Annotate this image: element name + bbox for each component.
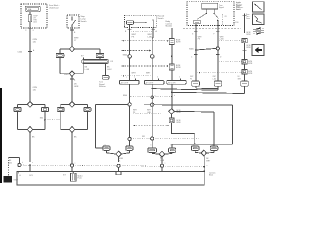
stop lamp switch dashed box bbox=[67, 15, 79, 28]
rear mid inner bulb bbox=[169, 148, 176, 152]
wire BCM pin1 down bbox=[171, 45, 173, 64]
wire column E turn B bbox=[195, 24, 197, 81]
ground rail ticks bbox=[17, 171, 19, 173]
svg-text:Rear: Rear bbox=[246, 14, 250, 16]
rear right inner bulb bbox=[210, 146, 218, 150]
turn signal switch body bbox=[202, 3, 218, 9]
long junction line right segment bbox=[144, 104, 232, 107]
svg-text:B298: B298 bbox=[176, 67, 180, 69]
wire column A below cluster bbox=[129, 84, 131, 139]
horizontal H4 diamond to rear right bbox=[175, 110, 215, 113]
dotted row y138.6 bbox=[130, 138, 199, 140]
horizontal H2 BCM column to rear feed G bbox=[171, 92, 173, 94]
connector ticks at fuse block exit bbox=[28, 27, 32, 29]
wire BCM square down bbox=[171, 123, 173, 134]
rear mid outer bulb bbox=[148, 148, 157, 152]
wire G down bbox=[244, 43, 246, 60]
long junction line y104.5 left segment bbox=[96, 103, 128, 105]
tick marks on E F bbox=[194, 54, 198, 56]
dashed row 3 to BCM bbox=[122, 65, 170, 67]
wire column B hazard output bbox=[152, 28, 154, 38]
splice diamond on BCM column bbox=[169, 109, 175, 115]
svg-text:E: E bbox=[171, 144, 172, 146]
svg-text:S31: S31 bbox=[142, 136, 145, 138]
icon harness arrows bbox=[253, 27, 265, 30]
svg-text:B298: B298 bbox=[248, 63, 252, 65]
svg-text:D: D bbox=[105, 144, 106, 146]
svg-text:Switch: Switch bbox=[158, 17, 165, 20]
svg-text:L-BU: L-BU bbox=[107, 69, 112, 71]
svg-text:B298: B298 bbox=[177, 112, 181, 114]
svg-text:PK: PK bbox=[190, 78, 192, 80]
hazard switch contact bbox=[127, 21, 134, 25]
front right branch wires bbox=[61, 103, 69, 105]
svg-text:Underhood: Underhood bbox=[49, 6, 58, 9]
wire BCM column down to diamond bbox=[171, 84, 173, 108]
svg-text:S304: S304 bbox=[123, 95, 127, 97]
svg-text:C475: C475 bbox=[29, 175, 33, 177]
svg-text:STOP: STOP bbox=[33, 15, 37, 17]
svg-text:S305: S305 bbox=[189, 49, 193, 51]
splice dot dotted row y96.6 bbox=[129, 96, 131, 98]
connector box column E bbox=[192, 81, 200, 86]
ground dotted bus bbox=[21, 165, 204, 167]
wire rear right to ground bus and junction block bbox=[203, 156, 205, 185]
front left lamp lower wires bbox=[17, 112, 19, 130]
svg-text:Gnd: Gnd bbox=[236, 9, 240, 11]
rear mid lamp lower wires bbox=[151, 152, 153, 153]
page edge black bar bbox=[0, 88, 2, 183]
connector box column G bbox=[241, 81, 249, 86]
svg-text:B298: B298 bbox=[247, 47, 251, 49]
dashed row y125.5 with arrow bbox=[133, 125, 168, 127]
wire F box down to H1 bbox=[217, 86, 219, 90]
icon page arrow box bbox=[252, 45, 264, 56]
BCM connector pin box 1 bbox=[169, 39, 174, 45]
connector C100 bbox=[28, 51, 32, 53]
hazard switch exit ticks bbox=[128, 28, 132, 30]
turn signal switch dashed box bbox=[187, 1, 234, 25]
dot junction front left bbox=[29, 164, 31, 166]
junction dot ground right bbox=[203, 166, 205, 168]
icon connector symbol box 1 bbox=[253, 2, 265, 12]
svg-text:L-BU: L-BU bbox=[213, 78, 216, 80]
front left park bulb bbox=[42, 108, 49, 112]
splice S340 bbox=[69, 46, 74, 51]
wire column G stub bbox=[244, 14, 246, 34]
front right park bulb bbox=[84, 108, 91, 112]
option splice circles row bbox=[128, 55, 132, 59]
dotted row F to G2 bbox=[219, 61, 242, 63]
circle junction col B bbox=[151, 137, 154, 140]
circle junction col A bbox=[128, 137, 131, 140]
svg-text:B299: B299 bbox=[176, 42, 180, 44]
svg-text:Turn: Turn bbox=[246, 16, 249, 18]
svg-text:B298: B298 bbox=[248, 73, 252, 75]
wire G down 2 bbox=[244, 64, 246, 70]
splice S341 bbox=[69, 71, 74, 76]
rear right outer bulb bbox=[191, 146, 199, 150]
junction dot on park leg bbox=[44, 119, 46, 121]
wire rail into rear mid inner bulb bbox=[171, 144, 173, 148]
dotted row E to G3 arrow bbox=[197, 72, 242, 74]
wire column B below cluster bbox=[151, 84, 153, 137]
junction to right rear feed bbox=[171, 133, 173, 135]
ground lead wire to G302 bbox=[18, 157, 20, 163]
svg-text:Block: Block bbox=[209, 174, 213, 176]
internal link dotted below hazard switch bbox=[130, 30, 154, 32]
cluster connector box right turn bbox=[144, 80, 164, 84]
svg-text:Module: Module bbox=[166, 26, 173, 28]
dotted row y112.5 bbox=[133, 112, 162, 114]
wire left rear feed corner bbox=[96, 147, 103, 149]
svg-text:D: D bbox=[151, 144, 152, 146]
fuse F-STOP bbox=[29, 12, 31, 15]
splice pack component on rail bbox=[70, 173, 76, 181]
cluster connector box left turn bbox=[119, 80, 139, 84]
BCM terminal box G3 bbox=[242, 70, 247, 74]
dotted link between front lamps bbox=[45, 119, 61, 121]
cluster connector box hazard bbox=[167, 80, 187, 84]
svg-text:S341: S341 bbox=[64, 74, 68, 76]
dashed row 1 to BCM bbox=[122, 40, 170, 42]
exit ticks bbox=[194, 31, 198, 33]
svg-text:G302: G302 bbox=[14, 180, 18, 182]
ground G302 bbox=[4, 176, 13, 183]
svg-text:Pack: Pack bbox=[78, 178, 82, 180]
wire flasher left pin down bbox=[82, 64, 84, 74]
splice diamond rear right bbox=[201, 150, 207, 156]
wire BCM pin2 down to cluster bbox=[171, 70, 173, 81]
splice diamond rear mid bbox=[159, 151, 165, 157]
connector on switch exit E bbox=[194, 20, 200, 24]
connector box column F bbox=[214, 81, 222, 86]
svg-text:C100: C100 bbox=[17, 52, 22, 54]
rear left lamp lower wires bbox=[105, 150, 107, 153]
dashed row 2 bbox=[122, 50, 152, 52]
splice diamond front right bottom bbox=[69, 127, 75, 133]
fuse block connector bbox=[25, 6, 40, 11]
wire front right to bus bbox=[71, 167, 73, 171]
front right lamp lower wires bbox=[60, 112, 62, 130]
wire flasher right pin to flasher ground connector bbox=[105, 64, 107, 76]
connector notch label bbox=[222, 14, 224, 26]
svg-text:S302: S302 bbox=[123, 54, 127, 56]
BCM column wire bbox=[171, 28, 173, 39]
wire diamond to BCM square bbox=[171, 114, 173, 118]
front left lamp branch wires bbox=[18, 103, 28, 105]
circle junction ground lead bbox=[18, 163, 21, 166]
dotted row 4 bbox=[122, 75, 152, 77]
svg-text:B298: B298 bbox=[247, 34, 251, 36]
corner wire from column E bbox=[195, 86, 197, 88]
flasher pin stub bbox=[83, 58, 85, 60]
switch pin stubs bbox=[205, 9, 207, 13]
svg-text:450: 450 bbox=[9, 162, 12, 164]
svg-text:F: F bbox=[26, 30, 27, 32]
front right turn bulb bbox=[57, 108, 64, 112]
circle junction col A y104.4 bbox=[128, 103, 131, 106]
svg-text:L-GN: L-GN bbox=[85, 69, 90, 71]
front left turn bulb bbox=[14, 108, 21, 112]
connector tab under bus bbox=[116, 171, 121, 174]
wire rear mid to ground bus bbox=[161, 157, 163, 164]
splice diamond front left bottom bbox=[27, 127, 33, 133]
BCM square terminal bbox=[169, 118, 174, 123]
splice diamond rear left bbox=[116, 151, 122, 157]
wire right connector into flasher bbox=[99, 58, 101, 60]
wire front left to ground bus bbox=[29, 132, 31, 161]
connector right of flasher bbox=[96, 53, 104, 57]
turn signal flasher connector bbox=[102, 76, 109, 80]
dotted row F to G1 bbox=[219, 40, 242, 42]
svg-text:F: F bbox=[214, 34, 215, 36]
BCM terminal box G1 bbox=[242, 38, 247, 42]
splice diamond front left top bbox=[27, 101, 33, 107]
feed rail horizontal bbox=[172, 143, 232, 145]
splice diamond front right top bbox=[69, 101, 75, 107]
wire splice S341 down bbox=[71, 76, 73, 101]
svg-text:Switch: Switch bbox=[81, 20, 88, 23]
svg-text:S32: S32 bbox=[40, 117, 43, 119]
rear right lamp lower wires bbox=[194, 150, 196, 152]
icon connector symbol box 2 bbox=[253, 14, 265, 25]
wire G down 3 bbox=[244, 74, 246, 81]
svg-text:B298: B298 bbox=[177, 122, 181, 124]
svg-text:DK: DK bbox=[238, 76, 240, 78]
circle junction rear mid bbox=[160, 164, 163, 167]
svg-text:Flasher: Flasher bbox=[99, 86, 106, 88]
circle junction col B y104.6 bbox=[151, 103, 154, 106]
svg-text:WHT: WHT bbox=[190, 76, 193, 78]
svg-text:GRN: GRN bbox=[74, 86, 79, 88]
wire column A into inner bulb bbox=[129, 141, 131, 146]
wire left connector down bbox=[59, 58, 61, 74]
svg-text:GRN: GRN bbox=[238, 78, 241, 80]
horizontal right-rear feed bbox=[172, 133, 195, 135]
stop lamp switch contacts bbox=[71, 17, 73, 20]
wire G box down to H2 corner bbox=[244, 86, 246, 93]
BCM connector pin box 2 bbox=[169, 64, 174, 70]
wire splice to right connector bbox=[75, 48, 100, 50]
svg-text:WHT: WHT bbox=[213, 76, 216, 78]
wire stop lamp switch down bbox=[71, 28, 73, 46]
wire rear left to ground bus bbox=[118, 157, 120, 162]
rear left outer bulb bbox=[103, 146, 110, 150]
splice link E-F bbox=[195, 49, 197, 51]
hazard flasher housing bbox=[82, 60, 109, 64]
fuse block dashed outline bbox=[21, 4, 47, 28]
circle junction rear left bbox=[117, 164, 120, 167]
wire column F turn A bbox=[217, 20, 219, 81]
harness boundary dashed line bbox=[183, 28, 241, 30]
horizontal H1 cluster to switch column F bbox=[152, 89, 218, 91]
svg-text:E F: E F bbox=[81, 56, 84, 58]
wire column B into outer bulb bbox=[151, 140, 153, 148]
wire fuse to lamps ORN bbox=[29, 28, 31, 102]
circle junction front right bbox=[70, 164, 73, 167]
ground rail rectangle bbox=[17, 171, 204, 185]
wire front right to ground bus bbox=[71, 132, 73, 163]
svg-text:WHT: WHT bbox=[206, 161, 210, 163]
right vertical to rear rail bbox=[231, 105, 233, 144]
svg-text:Conn: Conn bbox=[246, 18, 250, 20]
wire column A hazard output bbox=[129, 28, 131, 81]
BCM terminal box G2 bbox=[242, 60, 247, 64]
svg-text:Signal: Signal bbox=[219, 7, 224, 9]
wire splice to left connector bbox=[60, 48, 69, 50]
connector left of flasher bbox=[56, 53, 64, 57]
junction on BCM column bbox=[171, 56, 173, 58]
svg-text:C230: C230 bbox=[235, 22, 239, 24]
hazard switch dashed box bbox=[124, 15, 156, 27]
wire front left to bus bbox=[29, 166, 31, 171]
rear left inner bulb bbox=[126, 146, 133, 150]
svg-text:C8: C8 bbox=[225, 16, 227, 18]
